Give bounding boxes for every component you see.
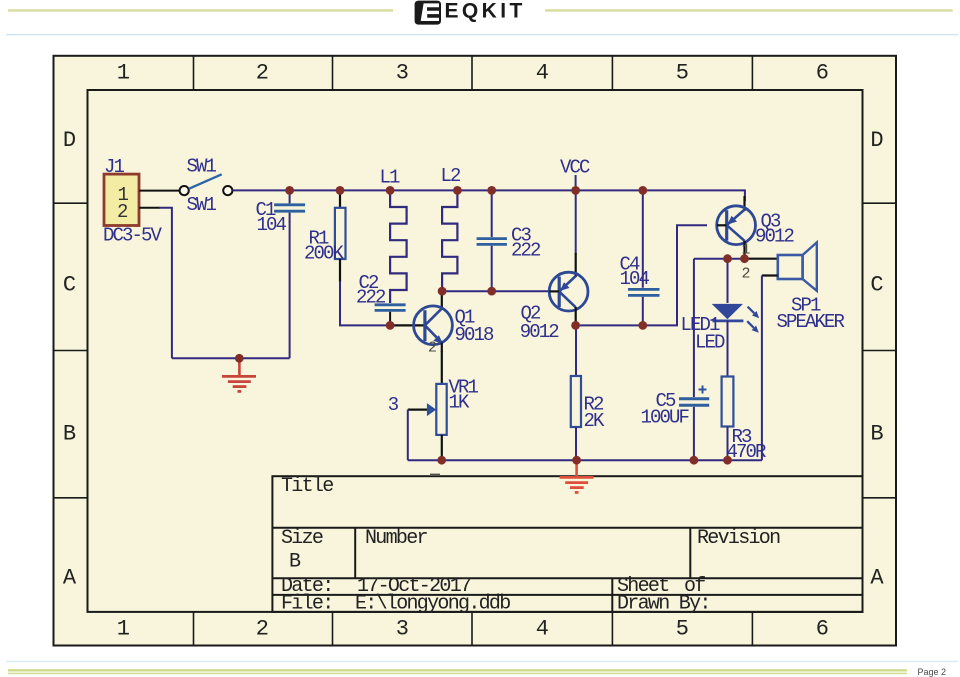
zone letters left — [63, 128, 77, 591]
svg-text:C: C — [63, 273, 76, 298]
svg-text:Page 2: Page 2 — [918, 667, 947, 677]
ground GND2 — [560, 460, 594, 492]
svg-text:3: 3 — [396, 617, 409, 642]
svg-text:Size: Size — [281, 527, 323, 550]
zone row dividers right — [863, 203, 897, 498]
potentiometer VR1 — [388, 351, 479, 460]
svg-text:SW1: SW1 — [187, 156, 217, 178]
J1 pin 1 — [139, 190, 179, 192]
transistor Q1 — [414, 291, 494, 356]
svg-text:E:\longyong.ddb: E:\longyong.ddb — [355, 593, 510, 616]
stray mark — [430, 474, 440, 476]
svg-text:1: 1 — [117, 61, 130, 86]
zone column dividers bottom — [194, 612, 753, 646]
EQKIT logo icon — [415, 1, 441, 25]
svg-text:222: 222 — [511, 240, 541, 262]
svg-text:2K: 2K — [584, 410, 606, 432]
footer green rule 1 — [6, 661, 958, 663]
svg-text:1K: 1K — [449, 392, 471, 414]
svg-text:9012: 9012 — [755, 226, 795, 248]
svg-text:J1: J1 — [104, 156, 125, 178]
inductor L2 — [441, 165, 462, 291]
pale blue divider — [6, 34, 958, 36]
svg-text:3: 3 — [388, 394, 399, 416]
svg-text:9012: 9012 — [520, 321, 560, 343]
capacitor C3 — [477, 190, 541, 291]
svg-text:DC3-5V: DC3-5V — [103, 225, 163, 247]
title block texts — [281, 475, 780, 616]
svg-text:200K: 200K — [304, 243, 345, 265]
svg-text:LED: LED — [695, 332, 725, 354]
speaker row wire — [694, 258, 746, 260]
transistor Q2 — [520, 190, 588, 343]
title block borders — [272, 476, 862, 612]
LED1 — [681, 259, 760, 354]
svg-text:File:: File: — [281, 593, 333, 616]
svg-text:EQKIT: EQKIT — [445, 0, 526, 23]
switch SW1 — [180, 156, 233, 217]
svg-text:5: 5 — [676, 617, 689, 642]
resistor R2 — [571, 325, 605, 460]
svg-text:2: 2 — [117, 201, 128, 223]
capacitor C5 — [641, 386, 710, 461]
capacitor C2 — [356, 272, 406, 325]
inductor L1 — [380, 167, 407, 304]
junction dots — [235, 186, 749, 465]
capacitor C1 — [256, 190, 306, 236]
wire C1 to ground rail — [289, 221, 291, 358]
wire J1 pin2 to ground rail — [159, 208, 172, 358]
bottom rail wire — [408, 459, 762, 461]
svg-text:4: 4 — [536, 617, 549, 642]
zone column dividers top — [194, 56, 753, 90]
svg-text:B: B — [289, 551, 301, 574]
svg-text:SPEAKER: SPEAKER — [777, 311, 845, 333]
wire Q2 collector row — [576, 225, 707, 325]
sheet background — [54, 56, 897, 646]
svg-text:Drawn By:: Drawn By: — [617, 593, 710, 616]
outer frame — [54, 56, 897, 646]
svg-text:9018: 9018 — [455, 324, 495, 346]
wire C5 branch top — [693, 259, 695, 397]
wire C2 row to Q1 base — [390, 324, 425, 326]
wire R1 to base row — [340, 281, 390, 325]
svg-text:100UF: 100UF — [641, 407, 690, 429]
svg-text:L2: L2 — [441, 165, 462, 187]
transistor Q3 — [717, 196, 795, 259]
zone numbers bottom — [117, 617, 829, 642]
svg-text:A: A — [870, 566, 884, 591]
svg-text:B: B — [870, 422, 883, 447]
zone row dividers left — [54, 203, 88, 498]
svg-text:222: 222 — [356, 287, 386, 309]
zone numbers top — [117, 61, 829, 86]
svg-text:2: 2 — [256, 61, 269, 86]
svg-text:VCC: VCC — [560, 157, 590, 179]
svg-text:104: 104 — [257, 214, 287, 236]
svg-text:L1: L1 — [380, 167, 401, 189]
svg-text:D: D — [870, 128, 883, 153]
svg-text:Number: Number — [365, 527, 428, 550]
header left green rule — [8, 9, 393, 11]
main VCC rail wire — [232, 190, 745, 201]
svg-text:C: C — [870, 273, 883, 298]
power port VCC — [560, 157, 590, 191]
svg-text:104: 104 — [620, 268, 650, 290]
svg-text:2: 2 — [256, 617, 269, 642]
zone letters right — [870, 128, 884, 591]
svg-text:1: 1 — [117, 617, 130, 642]
resistor R3 — [722, 321, 766, 463]
footer green rule 2 — [8, 669, 907, 671]
ground GND1 — [222, 359, 256, 392]
speaker SP1 — [777, 242, 845, 333]
svg-text:A: A — [63, 566, 77, 591]
svg-text:6: 6 — [816, 61, 829, 86]
svg-text:2: 2 — [742, 266, 750, 283]
svg-text:5: 5 — [676, 61, 689, 86]
J1 pin 2 — [139, 207, 160, 209]
wire L2 bottom row to Q2 base — [442, 290, 550, 292]
resistor R1 — [304, 190, 346, 282]
svg-text:Title: Title — [281, 475, 333, 498]
svg-text:4: 4 — [536, 61, 549, 86]
svg-text:6: 6 — [816, 617, 829, 642]
svg-text:SW1: SW1 — [187, 194, 217, 216]
connector J1 — [103, 156, 163, 247]
svg-text:3: 3 — [396, 61, 409, 86]
capacitor C4 — [620, 190, 660, 325]
speaker pin2 wire — [762, 274, 778, 276]
inner frame — [88, 90, 863, 612]
svg-text:2: 2 — [428, 340, 436, 357]
header right green rule — [545, 9, 953, 11]
svg-text:B: B — [63, 422, 76, 447]
VR1 wiper wire — [407, 410, 409, 461]
svg-text:D: D — [63, 128, 76, 153]
svg-text:Revision: Revision — [697, 527, 780, 550]
ground rail wire — [172, 357, 290, 359]
